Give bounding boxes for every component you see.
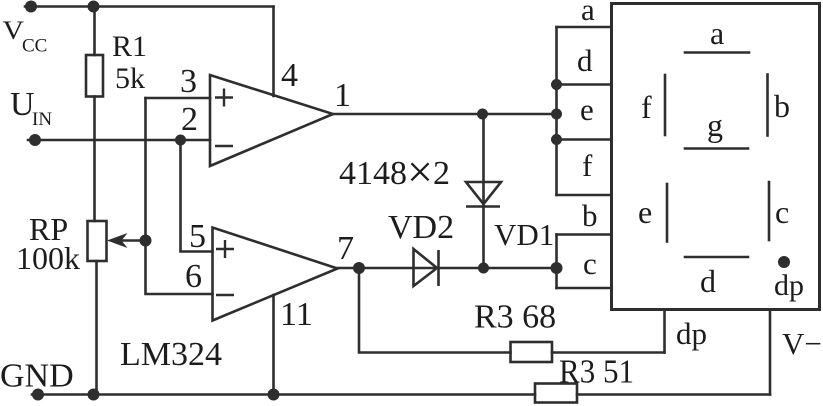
svg-text:V−: V− — [782, 326, 822, 361]
svg-text:5: 5 — [189, 218, 206, 255]
svg-text:VD1: VD1 — [494, 217, 554, 252]
svg-text:1: 1 — [334, 77, 351, 114]
svg-text:CC: CC — [22, 36, 47, 57]
svg-text:g: g — [707, 107, 723, 143]
svg-text:d: d — [577, 43, 593, 78]
svg-text:LM324: LM324 — [120, 336, 222, 373]
svg-text:c: c — [583, 246, 597, 281]
svg-text:100k: 100k — [16, 240, 80, 276]
svg-text:f: f — [582, 148, 593, 183]
svg-text:5k: 5k — [115, 62, 145, 95]
svg-text:7: 7 — [337, 230, 354, 267]
svg-text:c: c — [775, 194, 789, 230]
svg-text:R3 68: R3 68 — [474, 299, 556, 336]
svg-text:dp: dp — [676, 316, 707, 351]
svg-text:11: 11 — [280, 296, 313, 333]
svg-text:6: 6 — [185, 258, 202, 295]
svg-text:VD2: VD2 — [388, 209, 454, 246]
svg-text:R3 51: R3 51 — [559, 354, 634, 391]
svg-text:a: a — [581, 0, 595, 27]
svg-text:4: 4 — [281, 57, 298, 94]
svg-text:b: b — [582, 198, 598, 233]
svg-text:d: d — [700, 263, 716, 299]
svg-text:R1: R1 — [112, 30, 147, 63]
svg-text:f: f — [641, 89, 652, 125]
svg-text:V: V — [3, 16, 25, 45]
svg-text:2: 2 — [181, 101, 198, 138]
svg-text:e: e — [638, 194, 652, 230]
svg-text:a: a — [710, 15, 724, 51]
svg-text:e: e — [580, 92, 594, 127]
svg-text:dp: dp — [774, 269, 804, 302]
svg-text:3: 3 — [180, 63, 197, 100]
svg-text:IN: IN — [32, 109, 52, 130]
svg-text:U: U — [10, 86, 35, 123]
svg-text:GND: GND — [0, 358, 74, 395]
svg-text:b: b — [774, 88, 790, 124]
